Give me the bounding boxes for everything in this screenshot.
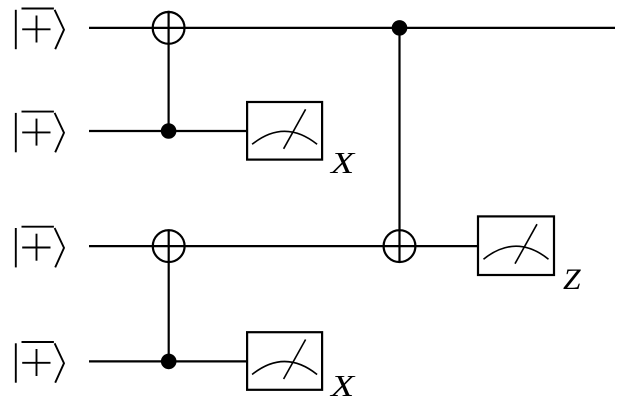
svg-text:X: X [329, 368, 356, 400]
CNOT control dot on q1 [161, 123, 177, 139]
wire q0 [89, 27, 615, 29]
measurement box on q2 [478, 216, 554, 275]
wire: CNOT3 vertical q0-q2 [398, 28, 400, 263]
CNOT target on q2 (column 1) [153, 230, 185, 262]
ket label |+~> qubit q0 [16, 9, 64, 50]
svg-text:X: X [329, 145, 356, 180]
wire q3 [89, 360, 247, 362]
wire: CNOT1 vertical q0-q1 [168, 11, 170, 131]
ket label |+~> qubit q2 [16, 227, 64, 268]
measurement box on q1 [247, 102, 322, 160]
svg-text:Z: Z [563, 264, 581, 296]
CNOT control dot on q3 [161, 354, 177, 370]
meter symbol q3 [252, 340, 317, 380]
ket label |+~> qubit q1 [16, 112, 64, 153]
meter symbol q2 [484, 224, 549, 264]
ket label |+~> qubit q3 [16, 342, 64, 383]
CNOT control dot on q0 [392, 20, 408, 36]
CNOT target on q0 [153, 12, 185, 44]
measurement box on q3 [247, 332, 322, 390]
wire: CNOT2 vertical q2-q3 [168, 229, 170, 361]
CNOT target on q2 (column 2) [384, 230, 416, 262]
meter symbol q1 [252, 109, 317, 149]
wire q1 [89, 130, 247, 132]
wire q2 [89, 245, 478, 247]
